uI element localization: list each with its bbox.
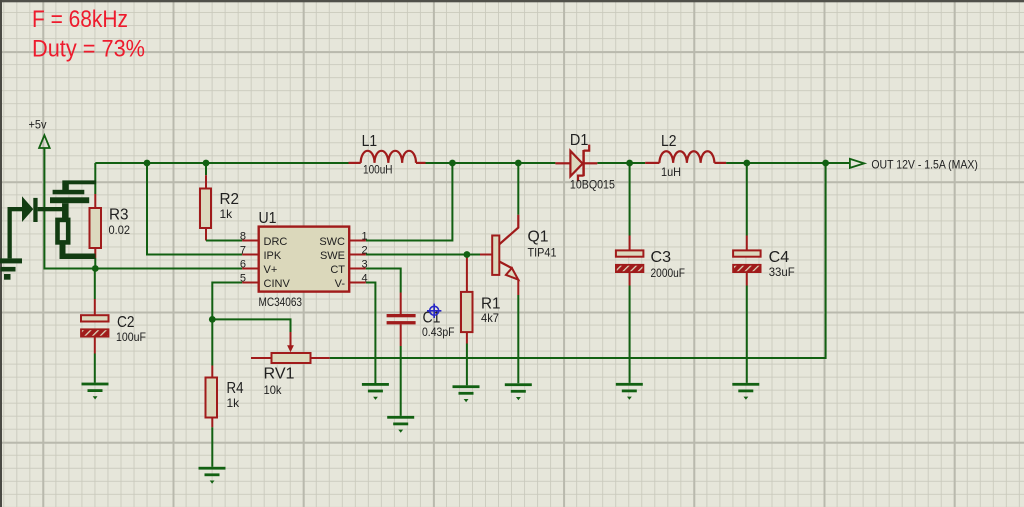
svg-text:L2: L2 (661, 133, 677, 150)
wire pin 1 SWC to collector node (366, 163, 453, 241)
svg-text:D1: D1 (570, 132, 589, 149)
wire C1 bottom to ground (400, 324, 402, 346)
C1 origin marker (blue) (427, 304, 441, 318)
wire R1 top lead (466, 256, 468, 292)
svg-text:4k7: 4k7 (481, 311, 499, 325)
junction dot rail-R2 (203, 160, 210, 167)
svg-text:IPK: IPK (264, 250, 282, 262)
ground under R4 (199, 467, 226, 484)
svg-text:R1: R1 (481, 295, 501, 312)
svg-text:8: 8 (240, 231, 246, 243)
inductor L2 (645, 133, 726, 179)
svg-text:R4: R4 (227, 380, 244, 397)
wire C4 bottom to ground (746, 272, 748, 285)
svg-text:C4: C4 (769, 249, 790, 266)
svg-text:2000uF: 2000uF (651, 266, 686, 280)
wire R2 bottom to pin 8 (205, 228, 207, 241)
svg-text:+5v: +5v (29, 118, 47, 132)
wire pin 4 V- to ground (366, 283, 376, 384)
sketch ground (thick) (0, 258, 22, 279)
wire R3 bottom lead (94, 248, 96, 258)
ground under V- wire (362, 383, 389, 400)
wire Q1 collector (517, 163, 519, 215)
svg-text:10k: 10k (264, 383, 283, 397)
wire pin 3 CT to C1 (366, 269, 401, 293)
svg-text:33uF: 33uF (769, 265, 795, 279)
U1 pin numbers 1 2 3 4 (362, 231, 368, 285)
wire R1 bottom lead to ground (466, 332, 468, 343)
svg-text:1uH: 1uH (661, 165, 681, 179)
U1 pin stubs right (349, 241, 366, 283)
junction dot rail-SWC (449, 160, 456, 167)
U1 pin numbers 8 7 6 5 (240, 231, 246, 285)
svg-text:OUT 12V - 1.5A (MAX): OUT 12V - 1.5A (MAX) (871, 157, 978, 171)
svg-text:100uH: 100uH (363, 163, 393, 177)
sketch diode (thick) (22, 196, 38, 222)
wire rail to pin 7 IPK (147, 163, 242, 255)
RV1 wiper arrowhead (287, 345, 294, 352)
svg-text:C3: C3 (651, 249, 672, 266)
wire top supply rail (input side) (95, 162, 348, 164)
U1 pin names right (319, 236, 345, 290)
sketch wire diode output (thick) (38, 207, 67, 211)
junction dot rail-C4 (743, 160, 750, 167)
svg-text:CT: CT (330, 264, 345, 276)
wire feedback from output rail to RV1 (330, 163, 826, 358)
svg-text:6: 6 (240, 259, 246, 271)
capacitor C2 (electrolytic) (81, 269, 146, 383)
svg-text:Q1: Q1 (528, 229, 549, 246)
svg-text:0.02: 0.02 (109, 223, 131, 237)
wire rail D1 to L2 (597, 162, 645, 164)
svg-text:Duty = 73%: Duty = 73% (32, 35, 145, 62)
wire rail L1 to D1 (426, 162, 556, 164)
svg-text:SWE: SWE (320, 250, 345, 262)
wire R3 top lead (94, 163, 96, 194)
sketch wire anode (thick) (8, 207, 23, 258)
svg-text:7: 7 (240, 245, 246, 257)
svg-text:1k: 1k (227, 396, 241, 410)
capacitor C1 0.43pF (387, 310, 455, 339)
wire C4 top lead (746, 163, 748, 236)
wire R2 top lead (205, 163, 207, 175)
wire pin 5 CINV to divider (212, 283, 242, 320)
output arrow (850, 159, 864, 168)
svg-text:1k: 1k (220, 207, 234, 221)
svg-text:R2: R2 (220, 191, 240, 208)
power flag +5v (29, 118, 50, 149)
junction dot rail-C3 (626, 160, 633, 167)
svg-text:DRC: DRC (264, 236, 288, 248)
svg-text:C2: C2 (117, 314, 135, 331)
resistor R3 (90, 207, 131, 249)
wire RV1 left stub (251, 357, 272, 359)
svg-text:SWC: SWC (319, 236, 345, 248)
wire CINV node to RV1 wiper (212, 319, 290, 332)
ground under C3 (616, 383, 643, 400)
svg-text:100uF: 100uF (116, 330, 146, 344)
diode D1 10BQ015 (schottky) (555, 132, 615, 192)
resistor R2 (200, 189, 239, 229)
wire +5v down to V+ rail (44, 148, 242, 269)
svg-text:RV1: RV1 (264, 366, 295, 383)
svg-text:CINV: CINV (264, 278, 291, 290)
ground under C2 (82, 383, 109, 400)
svg-text:MC34063: MC34063 (259, 295, 303, 309)
ground under C1 (387, 416, 414, 433)
wire rail L2 to output (726, 162, 849, 164)
svg-text:4: 4 (362, 273, 368, 285)
potentiometer RV1 (264, 353, 311, 397)
svg-text:0.43pF: 0.43pF (422, 325, 455, 339)
junction dot rail-R3 (144, 160, 151, 167)
wire pin 2 SWE to Q1 base (366, 254, 480, 256)
transistor Q1 TIP41 (492, 229, 557, 280)
svg-text:10BQ015: 10BQ015 (570, 178, 615, 192)
resistor R1 (461, 292, 501, 332)
wire C3 bottom to ground (629, 272, 631, 285)
wire R4 bottom lead to ground (211, 418, 213, 428)
inductor L1 (349, 133, 426, 177)
svg-text:V+: V+ (264, 264, 278, 276)
sketch resistor (thick) (58, 203, 69, 256)
svg-text:TIP41: TIP41 (528, 246, 557, 260)
sketch capacitor bars (thick) (50, 180, 96, 203)
svg-text:1: 1 (362, 231, 368, 243)
ground under R1 (453, 385, 480, 402)
svg-text:2: 2 (362, 245, 368, 257)
svg-text:U1: U1 (259, 210, 277, 227)
svg-text:L1: L1 (362, 133, 378, 150)
U1 pin names left (264, 236, 291, 290)
svg-text:F = 68kHz: F = 68kHz (32, 6, 128, 33)
wire C3 top lead (629, 163, 631, 236)
junction dot CINV divider (209, 316, 216, 323)
sketch wire to R3 bottom (thick) (60, 254, 96, 260)
resistor R4 (206, 378, 244, 418)
U1 pin stubs left (242, 241, 259, 283)
wire R4 top lead (211, 319, 213, 365)
svg-text:R3: R3 (109, 207, 129, 224)
junction dot Q1 base R1 (464, 251, 471, 258)
svg-text:V-: V- (335, 278, 346, 290)
junction dot V+ R3 (92, 265, 99, 272)
capacitor C4 (electrolytic) (733, 249, 795, 279)
capacitor C3 (electrolytic) (616, 249, 685, 280)
ground under C4 (732, 383, 759, 400)
wire Q1 emitter to ground (517, 279, 519, 295)
junction dot rail-collector (515, 160, 522, 167)
op-amp U1 MC34063 body (259, 210, 350, 309)
svg-text:3: 3 (362, 259, 368, 271)
ground under Q1 emitter (505, 383, 532, 400)
junction dot rail-feedback (822, 160, 829, 167)
svg-text:5: 5 (240, 273, 246, 285)
